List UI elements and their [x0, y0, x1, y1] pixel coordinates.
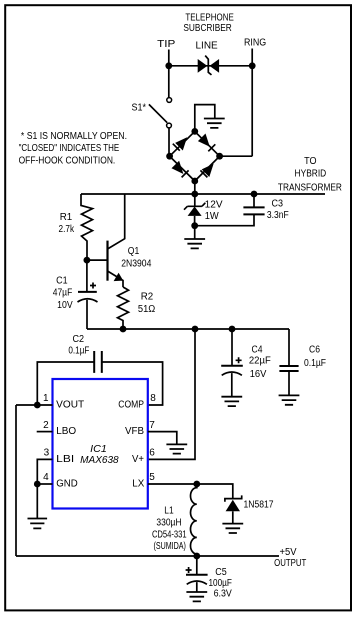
- label 12V 1W: [205, 200, 223, 222]
- svg-text:0.1µF: 0.1µF: [304, 358, 326, 369]
- svg-text:7: 7: [149, 420, 155, 431]
- svg-text:OFF-HOOK CONDITION.: OFF-HOOK CONDITION.: [19, 155, 116, 166]
- label L1 330uH CD54-331 (SUMIDA): [152, 506, 187, 552]
- ground below zener: [184, 239, 205, 248]
- label RING: [244, 38, 266, 49]
- svg-text:3: 3: [44, 447, 50, 458]
- label C6 0.1uF: [304, 345, 326, 370]
- label +5V OUTPUT: [274, 547, 306, 569]
- wire pin7 VFB to ground: [148, 432, 177, 445]
- svg-text:C4: C4: [252, 345, 263, 356]
- wire TIP lead: [168, 50, 170, 66]
- wire bridge right to RING column: [220, 66, 253, 156]
- svg-text:MAX638: MAX638: [80, 454, 119, 466]
- svg-text:TRANSFORMER: TRANSFORMER: [278, 183, 342, 194]
- svg-text:22µF: 22µF: [249, 356, 271, 367]
- svg-text:4: 4: [43, 472, 49, 483]
- label TO HYBRID TRANSFORMER: [278, 156, 342, 194]
- svg-text:CD54-331: CD54-331: [152, 530, 187, 541]
- node rail below bridge: [191, 191, 198, 198]
- capacitor C2: [37, 351, 162, 405]
- svg-text:0.1µF: 0.1µF: [68, 345, 89, 356]
- ground below 1N5817: [222, 524, 243, 533]
- svg-text:C3: C3: [272, 199, 284, 210]
- resistor R1: [81, 194, 93, 260]
- node LX junction: [193, 481, 200, 488]
- label S1*: [132, 102, 147, 113]
- ground at IC GND: [28, 519, 48, 529]
- svg-text:C6: C6: [309, 345, 320, 356]
- label IC1 MAX638: [80, 443, 119, 466]
- wire V+ riser: [148, 329, 195, 459]
- svg-text:TIP: TIP: [157, 39, 176, 50]
- svg-text:LX: LX: [132, 479, 144, 490]
- svg-text:VFB: VFB: [125, 426, 144, 437]
- node V+ riser top: [192, 326, 199, 333]
- wire bridge bottom to rail: [194, 181, 196, 194]
- capacitor C1: [78, 260, 98, 329]
- wire pin3 LBI stub and riser: [37, 459, 52, 484]
- wire bridge top to ground: [195, 105, 215, 132]
- svg-text:R1: R1: [60, 212, 73, 223]
- svg-text:OUTPUT: OUTPUT: [274, 558, 306, 569]
- svg-text:10V: 10V: [57, 300, 73, 311]
- svg-text:VOUT: VOUT: [56, 400, 84, 411]
- bridge rectifier diamond wires: [170, 131, 220, 181]
- node RING junction: [249, 62, 256, 69]
- note text S1 normally open: [19, 131, 127, 167]
- diode D3 bidirectional TVS across line: [198, 56, 219, 75]
- svg-text:LINE: LINE: [196, 41, 219, 52]
- svg-text:RING: RING: [244, 38, 266, 49]
- diode D1 zener 12V: [184, 194, 205, 226]
- node R1/Q1 base/C1 junction: [84, 257, 91, 264]
- switch S1: [149, 98, 172, 128]
- op-amp IC1 MAX638 box: [53, 379, 148, 509]
- node bridge left: [166, 153, 173, 160]
- resistor R2: [118, 287, 129, 329]
- label TELEPHONE SUBCRIBER LINE: [183, 13, 234, 52]
- svg-text:TO: TO: [304, 156, 317, 167]
- wire pin2 LBO stub: [37, 431, 53, 433]
- diode D2 1N5817 schottky: [225, 495, 242, 523]
- svg-text:16V: 16V: [250, 369, 267, 380]
- label R2 51ohm: [138, 292, 156, 316]
- svg-text:R2: R2: [141, 292, 154, 303]
- wire pin4 GND stub: [37, 483, 52, 485]
- wire TIP down to switch: [168, 66, 170, 98]
- svg-text:+5V: +5V: [280, 547, 297, 558]
- svg-text:100µF: 100µF: [209, 578, 232, 589]
- node rail at C3: [251, 191, 258, 198]
- svg-text:SUBCRIBER: SUBCRIBER: [183, 23, 231, 34]
- capacitor C5: [186, 556, 208, 592]
- inductor L1: [191, 484, 197, 556]
- svg-text:LBI: LBI: [56, 454, 74, 465]
- node bridge right: [216, 153, 223, 160]
- svg-text:* S1 IS NORMALLY OPEN.: * S1 IS NORMALLY OPEN.: [21, 131, 127, 142]
- svg-text:"CLOSED" INDICATES THE: "CLOSED" INDICATES THE: [19, 143, 120, 154]
- label C5 100uF 6.3V: [209, 567, 233, 600]
- wire switch to bridge left node: [168, 128, 171, 156]
- ground at VFB: [166, 444, 187, 453]
- svg-text:C5: C5: [215, 567, 227, 578]
- node zener bottom: [191, 222, 198, 229]
- svg-text:6.3V: 6.3V: [214, 589, 232, 600]
- svg-text:S1*: S1*: [132, 102, 147, 113]
- node bridge top: [191, 128, 198, 135]
- svg-text:HYBRID: HYBRID: [295, 168, 327, 179]
- ground at bridge top: [204, 119, 225, 128]
- node R2 bottom: [120, 326, 127, 333]
- svg-text:C2: C2: [73, 334, 85, 345]
- label C4 22uF 16V: [249, 345, 271, 380]
- label C2 0.1uF: [68, 334, 89, 357]
- node bridge bottom: [191, 178, 198, 185]
- label Q1 2N3904: [121, 246, 151, 270]
- label TIP: [157, 39, 176, 50]
- svg-text:GND: GND: [56, 479, 77, 490]
- wire pin4 to ground: [36, 484, 38, 519]
- svg-text:2: 2: [43, 420, 49, 431]
- capacitor C4: [221, 329, 243, 397]
- svg-text:L1: L1: [164, 506, 174, 517]
- bridge diode top-left: [173, 137, 187, 151]
- node pin1 junction: [34, 402, 41, 409]
- wire main rail to hybrid transformer: [81, 193, 325, 195]
- ground below C4: [221, 397, 242, 406]
- svg-text:1: 1: [43, 393, 49, 404]
- bridge diode top-right: [198, 134, 215, 152]
- svg-text:2.7k: 2.7k: [59, 224, 75, 235]
- svg-text:(SUMIDA): (SUMIDA): [153, 541, 186, 552]
- wire RING lead: [251, 49, 253, 66]
- label C1 47uF 10V: [53, 276, 73, 312]
- wire top line TIP-RING: [169, 65, 252, 67]
- ground below C5: [186, 592, 207, 601]
- svg-text:2N3904: 2N3904: [121, 259, 151, 270]
- bridge diode bottom-right: [200, 164, 213, 178]
- svg-text:Q1: Q1: [128, 246, 140, 257]
- node TIP junction: [165, 62, 172, 69]
- svg-text:6: 6: [149, 447, 155, 458]
- capacitor C6: [279, 329, 298, 395]
- wire +5V output rail: [16, 555, 279, 557]
- wire base: [87, 259, 107, 261]
- label 1N5817: [244, 500, 274, 511]
- svg-text:1W: 1W: [205, 211, 220, 222]
- wire left rail VOUT down: [15, 405, 17, 556]
- svg-text:LBO: LBO: [56, 426, 76, 437]
- svg-text:8: 8: [150, 393, 156, 404]
- transistor Q1 2N3904: [108, 194, 125, 287]
- capacitor C3: [195, 194, 265, 226]
- wire mid rail: [87, 328, 289, 330]
- svg-text:330µH: 330µH: [156, 518, 181, 529]
- svg-text:3.3nF: 3.3nF: [267, 210, 289, 221]
- wire pin5 LX to diode column: [148, 484, 233, 499]
- svg-text:51Ω: 51Ω: [138, 304, 156, 315]
- label C3 3.3nF: [267, 199, 289, 221]
- wire pin1 VOUT to left rail: [16, 404, 53, 406]
- svg-text:12V: 12V: [205, 200, 223, 211]
- wire zener bottom to ground: [194, 226, 196, 239]
- ground below C6: [279, 395, 300, 404]
- node L1 bottom on output rail: [193, 553, 200, 560]
- label pin names: [56, 400, 144, 490]
- label pin numbers: [43, 393, 156, 483]
- svg-text:47µF: 47µF: [53, 288, 73, 299]
- svg-text:1N5817: 1N5817: [244, 500, 274, 511]
- svg-text:C1: C1: [56, 276, 68, 287]
- svg-text:V+: V+: [132, 454, 144, 465]
- bridge diode bottom-left: [172, 161, 189, 178]
- svg-text:5: 5: [149, 472, 155, 483]
- label R1 2.7k: [59, 212, 75, 235]
- svg-text:COMP: COMP: [118, 400, 144, 411]
- node C4 top: [229, 326, 236, 333]
- node pin4 junction: [34, 481, 41, 488]
